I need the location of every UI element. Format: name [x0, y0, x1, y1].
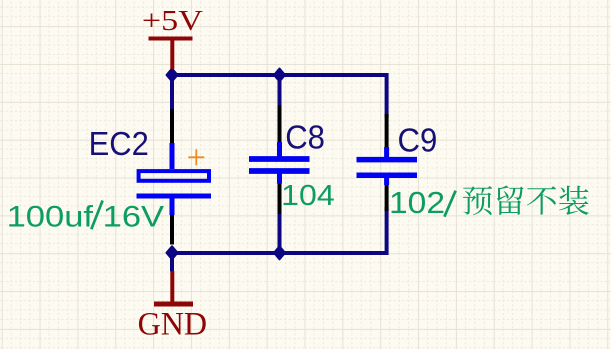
wire C8 top stub [278, 75, 282, 107]
svg-text:102: 102 [389, 185, 445, 220]
svg-text:C9: C9 [398, 121, 438, 158]
pin EC2 pin2 (black) [170, 213, 174, 245]
value slash in 102/ [444, 191, 455, 217]
pin C9 pin1 (black) [385, 114, 389, 149]
capacitor EC2 body [137, 143, 212, 215]
wire EC2 top stub [170, 75, 174, 111]
value slash in 100uf/16V [91, 201, 102, 230]
ground GND stem [170, 271, 174, 303]
wire bottom bus with corner up right side [172, 209, 387, 253]
value text CJK char yu (预) [463, 186, 492, 215]
pin C9 pin2 (black) [385, 184, 389, 212]
capacitor C8 body [249, 142, 310, 184]
value text CJK char bu (不) [527, 186, 556, 215]
ground GND bar [154, 302, 193, 307]
junction node bottom-left [167, 246, 178, 259]
svg-text:GND: GND [138, 307, 208, 343]
EC2 polarity plus (orange) [188, 149, 204, 165]
svg-text:EC2: EC2 [89, 125, 149, 162]
pin C8 pin2 (black) [278, 182, 282, 214]
junction node top-mid [274, 69, 285, 82]
power +5V bar [149, 37, 193, 41]
junction node bottom-mid [274, 246, 285, 259]
value text CJK char zhuang (装) [559, 186, 589, 215]
power +5V stem [170, 39, 174, 69]
wire C8 bottom stub [278, 213, 282, 253]
svg-text:+5V: +5V [142, 6, 203, 37]
pin EC2 pin1 (black) [170, 109, 174, 145]
capacitor C9 body [357, 147, 418, 185]
value text CJK char liu (留) [497, 186, 523, 215]
svg-text:104: 104 [281, 180, 335, 212]
wire GND stub [170, 253, 174, 272]
svg-text:100uf 16V: 100uf 16V [7, 200, 164, 233]
svg-text:C8: C8 [285, 118, 325, 155]
pin C8 pin1 (black) [278, 105, 282, 144]
junction node top-left [167, 69, 178, 82]
wire top bus with corner down right side [172, 75, 387, 116]
